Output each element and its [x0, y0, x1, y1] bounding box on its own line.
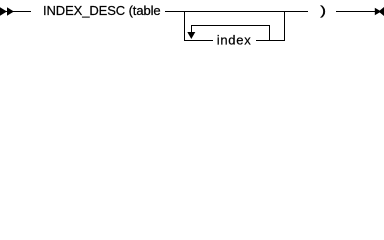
svg-text:index: index: [217, 32, 252, 47]
svg-text:): ): [320, 3, 326, 18]
svg-text:INDEX_DESC (table: INDEX_DESC (table: [43, 3, 161, 18]
